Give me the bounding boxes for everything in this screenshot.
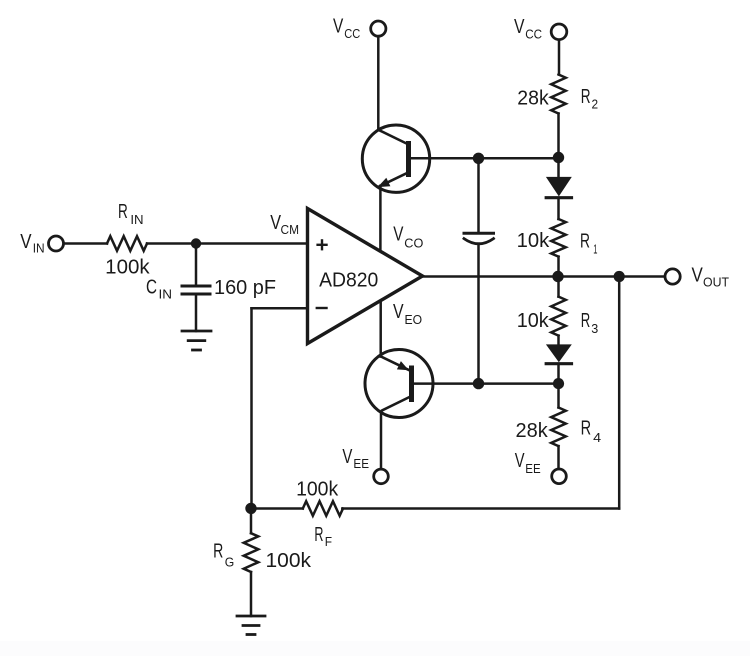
svg-text:100k: 100k: [296, 478, 339, 500]
svg-text:IN: IN: [33, 240, 45, 255]
svg-text:100k: 100k: [105, 257, 150, 279]
svg-text:3: 3: [591, 321, 598, 336]
svg-text:EE: EE: [525, 461, 541, 476]
svg-text:V: V: [514, 16, 525, 38]
svg-text:EO: EO: [405, 312, 423, 327]
svg-text:CC: CC: [525, 26, 542, 41]
svg-text:OUT: OUT: [703, 274, 729, 289]
svg-text:R: R: [581, 418, 592, 440]
svg-text:CO: CO: [404, 235, 423, 250]
svg-text:R: R: [314, 524, 323, 546]
svg-text:G: G: [225, 554, 235, 569]
svg-text:10k: 10k: [517, 230, 551, 252]
svg-text:V: V: [515, 450, 525, 472]
svg-text:CC: CC: [344, 26, 360, 41]
svg-text:C: C: [146, 276, 157, 298]
svg-text:100k: 100k: [266, 550, 313, 572]
svg-text:4: 4: [593, 430, 601, 445]
svg-text:R: R: [118, 201, 128, 223]
svg-text:V: V: [692, 265, 704, 287]
svg-text:V: V: [20, 231, 32, 253]
svg-text:V: V: [393, 224, 404, 246]
svg-text:V: V: [342, 446, 352, 468]
svg-text:10k: 10k: [517, 310, 550, 332]
svg-text:R: R: [213, 540, 223, 562]
svg-text:R: R: [581, 86, 591, 108]
svg-text:AD820: AD820: [319, 269, 378, 291]
svg-text:28k: 28k: [516, 420, 549, 442]
svg-text:IN: IN: [159, 286, 173, 301]
svg-text:F: F: [325, 534, 332, 549]
svg-text:1: 1: [593, 242, 597, 257]
svg-text:R: R: [581, 310, 591, 332]
svg-text:CM: CM: [281, 222, 300, 237]
svg-text:28k: 28k: [517, 88, 549, 110]
svg-text:V: V: [393, 301, 404, 323]
svg-text:V: V: [333, 16, 344, 38]
svg-text:R: R: [580, 230, 590, 252]
svg-text:2: 2: [592, 97, 599, 112]
svg-text:EE: EE: [353, 456, 369, 471]
svg-text:160 pF: 160 pF: [214, 277, 276, 299]
svg-text:IN: IN: [130, 212, 143, 227]
